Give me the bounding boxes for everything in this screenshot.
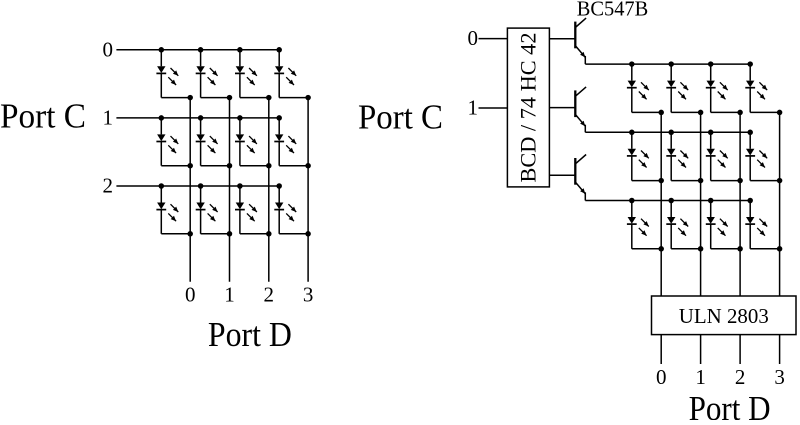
svg-text:BCD / 74 HC 42: BCD / 74 HC 42 [516,33,541,183]
svg-text:0: 0 [102,37,113,61]
svg-text:0: 0 [468,26,479,50]
svg-text:ULN 2803: ULN 2803 [679,304,769,328]
svg-text:0: 0 [656,365,667,389]
svg-text:Port C: Port C [0,97,86,136]
svg-text:Port D: Port D [689,389,771,420]
svg-text:3: 3 [774,365,785,389]
svg-text:2: 2 [735,365,746,389]
svg-text:1: 1 [468,96,479,120]
svg-text:2: 2 [264,283,275,307]
svg-text:1: 1 [695,365,706,389]
svg-text:2: 2 [102,174,113,198]
svg-text:BC547B: BC547B [577,0,649,20]
svg-text:Port C: Port C [358,97,443,136]
svg-text:1: 1 [102,106,113,130]
svg-text:1: 1 [224,283,235,307]
svg-text:Port D: Port D [208,315,292,354]
svg-text:3: 3 [303,283,314,307]
svg-text:0: 0 [185,283,196,307]
